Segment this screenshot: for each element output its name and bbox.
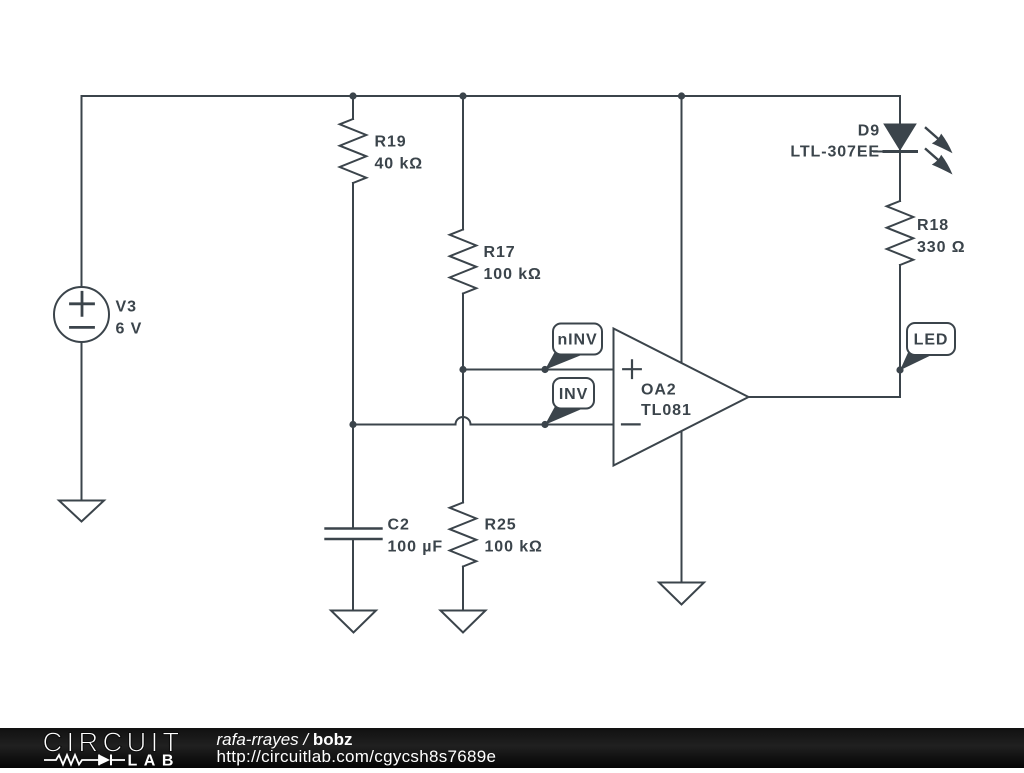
svg-text:330 Ω: 330 Ω: [917, 239, 965, 256]
svg-text:R17: R17: [484, 244, 516, 261]
resistor R18: [887, 201, 914, 265]
op-amp OA2 body: [614, 329, 749, 466]
op-amp minus input symbol: [622, 423, 640, 425]
svg-text:R18: R18: [917, 217, 949, 234]
voltage source V3: [54, 287, 109, 342]
flag INV: [545, 378, 594, 425]
resistor R17: [450, 230, 477, 294]
svg-text:LED: LED: [914, 332, 949, 349]
svg-text:V3: V3: [116, 299, 137, 316]
svg-text:100 kΩ: 100 kΩ: [485, 539, 543, 556]
resistor R25: [450, 503, 477, 567]
wire op-amp power vertical: [681, 96, 683, 583]
svg-text:OA2: OA2: [641, 381, 677, 398]
wire left vertical to V3: [81, 96, 83, 287]
svg-text:D9: D9: [858, 122, 880, 139]
diode D9 cathode bar and leader: [884, 150, 917, 153]
svg-text:6 V: 6 V: [116, 321, 143, 338]
wire R17 to nINV node: [462, 294, 464, 503]
node dot nINV junction: [459, 366, 466, 373]
flag nINV: [545, 324, 602, 370]
svg-text:R25: R25: [485, 517, 517, 534]
svg-text:INV: INV: [559, 386, 588, 403]
ground R25: [441, 611, 486, 633]
node dot top rail x681: [678, 92, 685, 99]
diode D9 light arrow 1: [925, 127, 953, 153]
svg-text:TL081: TL081: [641, 402, 692, 419]
svg-text:C2: C2: [388, 517, 410, 534]
svg-text:LTL-307EE: LTL-307EE: [790, 143, 880, 160]
svg-text:100 µF: 100 µF: [388, 539, 444, 556]
diode D9 light arrow 2: [925, 148, 953, 174]
wire top rail: [82, 95, 901, 97]
ground C2: [331, 611, 376, 633]
wire R25 to ground: [462, 567, 464, 611]
wire nINV input: [463, 369, 614, 371]
wire diode to top rail: [899, 96, 901, 150]
svg-text:http://circuitlab.com/cgycsh8s: http://circuitlab.com/cgycsh8s7689e: [217, 747, 497, 766]
svg-text:R19: R19: [375, 134, 407, 151]
diode D9 triangle: [885, 124, 916, 149]
svg-text:40 kΩ: 40 kΩ: [375, 156, 423, 173]
wire V3 to ground: [81, 342, 83, 500]
flag LED: [900, 323, 955, 370]
svg-text:nINV: nINV: [557, 332, 597, 349]
label R19 value: [375, 134, 423, 173]
label V3 value: [116, 299, 143, 338]
resistor R19: [340, 119, 367, 183]
wire R19 top lead: [352, 96, 354, 119]
node dot INV flag anchor: [541, 421, 548, 428]
wire INV input with hop: [353, 417, 614, 424]
label C2 value: [388, 517, 444, 556]
node dot LED flag anchor: [896, 366, 903, 373]
node dot INV junction: [349, 421, 356, 428]
wire op-amp output: [749, 265, 901, 397]
wire R19 to INV node and C2: [352, 183, 354, 528]
wire R18 to diode: [899, 152, 901, 202]
ground op-amp: [659, 583, 704, 605]
label R17 value: [484, 244, 542, 283]
capacitor C2: [326, 529, 382, 540]
label R25 value: [485, 517, 543, 556]
svg-text:100 kΩ: 100 kΩ: [484, 266, 542, 283]
node dot top rail x353: [349, 92, 356, 99]
svg-text:LAB: LAB: [128, 753, 180, 769]
ground V3: [59, 501, 104, 522]
label D9 part number: [790, 122, 880, 160]
wire C2 to ground: [352, 539, 354, 611]
logo resistor squiggle and diode: [44, 755, 125, 766]
node dot nINV flag anchor: [541, 366, 548, 373]
wire R17 top lead: [462, 96, 464, 230]
diode D9 label leader line: [874, 151, 884, 153]
op-amp plus input symbol: [623, 360, 641, 378]
label R18 value: [917, 217, 965, 256]
label OA2 TL081: [641, 381, 692, 419]
node dot top rail x463: [459, 92, 466, 99]
